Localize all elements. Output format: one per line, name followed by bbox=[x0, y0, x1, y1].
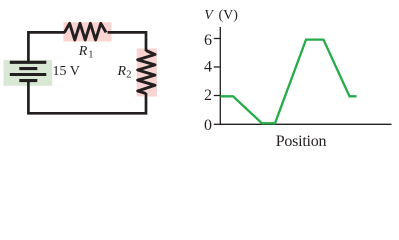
svg-text:0: 0 bbox=[204, 117, 212, 134]
svg-text:1: 1 bbox=[88, 50, 93, 61]
svg-text:2: 2 bbox=[126, 70, 131, 81]
svg-text:4: 4 bbox=[204, 59, 212, 76]
svg-text:Position: Position bbox=[276, 133, 327, 150]
svg-text:15 V: 15 V bbox=[53, 64, 80, 79]
svg-text:(V): (V) bbox=[219, 8, 239, 23]
svg-text:2: 2 bbox=[204, 87, 212, 104]
svg-text:R: R bbox=[78, 44, 88, 59]
svg-text:R: R bbox=[117, 64, 127, 79]
svg-text:6: 6 bbox=[204, 32, 212, 49]
svg-text:V: V bbox=[204, 8, 214, 23]
